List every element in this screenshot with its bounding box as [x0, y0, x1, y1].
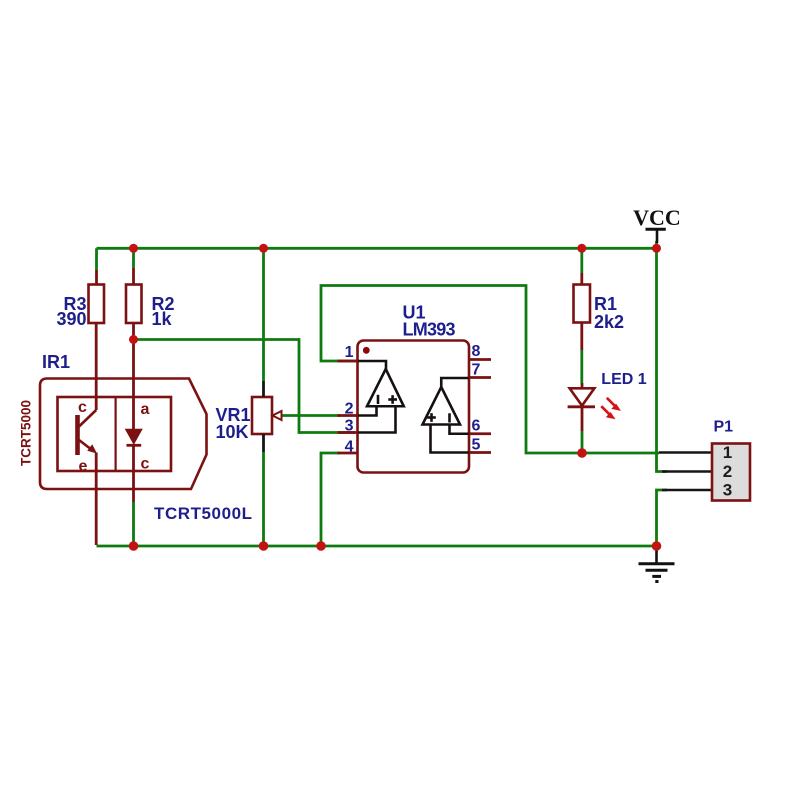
- svg-text:TCRT5000: TCRT5000: [19, 400, 34, 466]
- svg-text:e: e: [79, 458, 88, 475]
- svg-text:10K: 10K: [216, 422, 249, 442]
- svg-text:3: 3: [723, 481, 732, 500]
- svg-text:1: 1: [723, 443, 732, 462]
- svg-text:IR1: IR1: [42, 352, 70, 372]
- svg-text:8: 8: [472, 343, 481, 360]
- svg-text:a: a: [141, 401, 150, 418]
- svg-text:c: c: [141, 456, 150, 473]
- svg-text:5: 5: [472, 437, 481, 454]
- svg-text:7: 7: [472, 362, 481, 379]
- svg-text:6: 6: [472, 418, 481, 435]
- svg-text:R1: R1: [594, 294, 617, 314]
- svg-text:TCRT5000L: TCRT5000L: [154, 504, 252, 523]
- svg-text:4: 4: [345, 439, 354, 456]
- svg-text:2: 2: [345, 401, 354, 418]
- svg-text:1: 1: [345, 344, 354, 361]
- svg-text:2k2: 2k2: [594, 312, 624, 332]
- svg-text:VCC: VCC: [633, 205, 681, 230]
- svg-text:3: 3: [345, 418, 354, 435]
- svg-text:2: 2: [723, 462, 732, 481]
- svg-text:390: 390: [56, 309, 86, 329]
- svg-text:c: c: [78, 399, 87, 416]
- svg-text:LED 1: LED 1: [601, 371, 646, 388]
- svg-text:LM393: LM393: [403, 320, 456, 340]
- svg-text:P1: P1: [714, 419, 734, 436]
- svg-text:1k: 1k: [152, 309, 173, 329]
